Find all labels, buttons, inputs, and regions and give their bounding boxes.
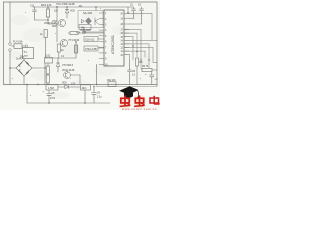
wire left to IC xyxy=(84,31,104,33)
wire box1 to IC xyxy=(98,38,104,40)
wire bridge right out xyxy=(32,67,45,69)
svg-text:VCC: VCC xyxy=(56,2,62,6)
junction xyxy=(47,6,48,7)
wire B1 to VCC xyxy=(95,7,97,11)
wire pin16 ext xyxy=(124,32,137,34)
svg-text:VT3 9013: VT3 9013 xyxy=(62,64,73,67)
wire to R3 xyxy=(68,32,70,34)
IR receiver module B1 box xyxy=(78,11,103,28)
IC right pin 18 stub xyxy=(124,23,129,25)
IC right pin 15 stub xyxy=(124,36,129,38)
junction xyxy=(140,59,141,60)
capacitor C9 electrolytic xyxy=(150,72,155,81)
wire vert x149 xyxy=(148,44,150,68)
wire R9 right xyxy=(152,69,157,71)
IC right pin 12 stub xyxy=(124,47,129,49)
svg-text:R10 47k: R10 47k xyxy=(41,3,52,7)
VCC rail wire xyxy=(33,6,133,8)
wire VCC to pin20 xyxy=(127,7,129,13)
watermark char dian partial (vector) xyxy=(150,96,159,104)
IC right pin 13 stub xyxy=(124,43,129,45)
terminal XP neutral xyxy=(9,49,12,52)
junction xyxy=(132,45,133,46)
junction xyxy=(66,6,67,7)
mark X1 xyxy=(82,30,85,33)
box filter 4M xyxy=(79,25,91,30)
IC left pin 2 stub xyxy=(99,18,104,20)
capacitor C7 box xyxy=(108,82,116,87)
resistor R1 vertical xyxy=(44,30,47,38)
resistor R6 xyxy=(46,66,49,74)
svg-text:1.5M: 1.5M xyxy=(48,86,54,90)
junction xyxy=(75,41,76,42)
wire JR down xyxy=(84,90,86,103)
resistor R9 xyxy=(142,68,152,71)
IC left pin 8 stub xyxy=(99,52,104,54)
watermark yellow glow xyxy=(120,96,144,107)
junction below IC xyxy=(96,84,97,85)
wire pin11 ext xyxy=(124,50,145,52)
second bottom wire xyxy=(96,86,157,88)
IC left pin 3 stub xyxy=(99,23,104,25)
svg-text:4T02-4.8B: 4T02-4.8B xyxy=(85,48,97,51)
wire VD9 bottom xyxy=(57,66,59,72)
svg-text:VD5: VD5 xyxy=(70,10,75,13)
wire T1 to bridge top xyxy=(23,59,25,61)
IC right pin 20 stub xyxy=(124,13,129,15)
wire C2 down xyxy=(133,14,135,19)
junction xyxy=(37,84,38,85)
wire vert x141b xyxy=(140,40,142,68)
capacitor C8 xyxy=(128,66,132,76)
diode VD5 xyxy=(65,10,69,13)
junction xyxy=(136,51,137,52)
wire AC live down xyxy=(9,2,11,43)
box JR xyxy=(81,85,91,90)
wire R9 left xyxy=(141,68,142,70)
junction xyxy=(148,59,149,60)
wire drop to ground rail xyxy=(26,85,28,104)
wire R10 top xyxy=(47,7,49,9)
wire C6 to rail xyxy=(93,98,95,103)
IC left pin 4 stub xyxy=(99,29,104,31)
diode VD9 xyxy=(56,63,60,66)
fuse FU1 0.5A xyxy=(14,44,22,49)
wire pin15 ext xyxy=(124,36,133,38)
box S10-102 xyxy=(84,37,98,42)
border top xyxy=(4,1,158,3)
svg-text:VT1 9013: VT1 9013 xyxy=(68,38,80,42)
transistor VT4 xyxy=(64,72,71,79)
wire vert x153 xyxy=(152,48,154,63)
wire R1 down to K1 xyxy=(45,38,47,58)
phototransistor inside B1 xyxy=(95,18,99,25)
wire K1 to R6 xyxy=(47,63,49,66)
wire R7 to bus xyxy=(47,83,49,85)
junction VCC-mid xyxy=(56,6,57,7)
wire R8 down xyxy=(136,66,138,85)
IC left pin 9 stub xyxy=(99,58,104,60)
capacitor C3 xyxy=(140,7,144,14)
junction R10 xyxy=(47,19,48,20)
wire pin ext short xyxy=(124,54,130,56)
watermark char chong 2 (vector) xyxy=(134,95,145,106)
svg-text:AT89C2051: AT89C2051 xyxy=(111,35,115,54)
svg-text:VT2: VT2 xyxy=(52,20,57,23)
wire R10 bottom xyxy=(47,17,49,24)
wire K1 down xyxy=(44,63,46,85)
wire pin17 ext xyxy=(124,29,141,31)
capacitor C6 electrolytic xyxy=(92,89,97,98)
wire below IC xyxy=(96,64,98,84)
wire vert x133 xyxy=(132,37,134,60)
junction xyxy=(95,6,96,7)
junction xyxy=(56,6,57,7)
paper background xyxy=(0,0,160,110)
wire R10 to VT1 area xyxy=(48,23,57,25)
svg-text:www.cndzz.com.cn: www.cndzz.com.cn xyxy=(122,107,157,110)
wire VD5 bottom xyxy=(66,13,68,18)
resistor R8 xyxy=(135,58,138,66)
relay K1 box xyxy=(45,58,53,64)
wire VT4 to right xyxy=(70,74,80,76)
IC right pin 10 stub xyxy=(124,54,129,56)
watermark char chong 1 (vector) xyxy=(120,95,131,106)
svg-text:470u: 470u xyxy=(50,98,56,100)
svg-text:SA-102: SA-102 xyxy=(83,11,92,15)
IC right pin 17 stub xyxy=(124,29,129,31)
junction JR rail xyxy=(84,102,85,103)
watermark graduation cap xyxy=(119,86,140,98)
wire vert x145 xyxy=(144,51,146,57)
ground rail xyxy=(27,102,110,104)
wire box2 to IC xyxy=(98,47,104,49)
wire R11 to VD12 xyxy=(58,86,65,88)
zener VD12 xyxy=(65,85,69,89)
wire pin14 ext long xyxy=(124,39,157,41)
svg-text:R9 75: R9 75 xyxy=(142,66,149,68)
resistor R4 xyxy=(57,44,60,52)
IR LED pair inside B1 xyxy=(82,20,85,23)
wire C3 to pin18 xyxy=(129,23,142,25)
resistor R10 xyxy=(46,9,49,17)
wire R4 down xyxy=(58,52,60,58)
wire R5 down xyxy=(75,53,77,58)
wire B1 down xyxy=(83,28,85,33)
wire R6-R7 xyxy=(47,74,49,75)
terminal T1 input xyxy=(25,45,27,47)
wire C11 down xyxy=(34,15,36,21)
svg-text:VD6 4148: VD6 4148 xyxy=(62,2,75,6)
svg-text:2.2u: 2.2u xyxy=(97,97,102,99)
wire fuse to T1 xyxy=(22,45,25,47)
junction C5 rail xyxy=(48,102,49,103)
scan noise xyxy=(9,10,152,99)
LED diamond inside B1 xyxy=(86,18,92,24)
junction xyxy=(56,23,57,24)
transistor VT3 xyxy=(60,39,67,46)
junction at bus xyxy=(26,84,27,85)
border right / wire xyxy=(156,2,158,86)
junction xyxy=(44,67,45,68)
wire to fuse xyxy=(11,45,14,47)
svg-text:FU 0.5A: FU 0.5A xyxy=(13,40,23,44)
wire vert x137 xyxy=(136,33,138,57)
border left / wire xyxy=(3,2,5,85)
wire to right border xyxy=(153,62,157,64)
IC right pin 16 stub xyxy=(124,32,129,34)
wire stub xyxy=(45,67,46,69)
IC left pin 1 stub xyxy=(99,12,104,14)
svg-text:T1: T1 xyxy=(24,50,28,54)
resistor R3 xyxy=(70,32,78,35)
IC right pin 19 stub xyxy=(124,18,129,20)
capacitor C11 xyxy=(33,7,37,15)
wire bridge left xyxy=(10,67,16,69)
capacitor C2 xyxy=(132,7,136,14)
wire C8 bottom xyxy=(129,76,131,85)
wire C3 down xyxy=(141,14,143,24)
wire bridge bottom to bus xyxy=(23,76,25,85)
wire R3 to IC xyxy=(78,32,104,34)
wire C6 top xyxy=(93,87,95,90)
svg-text:50V: 50V xyxy=(20,56,25,59)
wire vert x129 xyxy=(129,55,131,60)
wire x80 down xyxy=(79,75,81,85)
IC left pin 7 stub xyxy=(99,46,104,48)
box 4T03 xyxy=(84,46,98,51)
IC right pin 11 stub xyxy=(124,50,129,52)
resistor R7 xyxy=(46,75,49,83)
junction pin20 xyxy=(127,12,128,13)
IC left pin 6 stub xyxy=(99,41,104,43)
junction xyxy=(9,67,10,68)
wire C5 to rail xyxy=(48,99,50,103)
junction neutral-bridge xyxy=(9,67,10,68)
svg-text:JR-1: JR-1 xyxy=(82,87,88,90)
resistor R11 1.5M box xyxy=(46,85,58,90)
svg-text:JL52: JL52 xyxy=(45,55,51,58)
wire C11 join xyxy=(35,19,49,21)
IC U1 AT89C2051 body xyxy=(104,10,124,66)
wire R5 top xyxy=(75,42,77,45)
wire VD5 top xyxy=(66,7,68,10)
transformer T1 box xyxy=(23,48,34,59)
wire pin13 ext xyxy=(124,43,149,45)
terminal XP live xyxy=(9,43,12,46)
IC left pin 10 stub xyxy=(99,63,104,65)
bottom bus wire xyxy=(4,84,158,86)
wire C8 top xyxy=(129,60,131,66)
svg-text:VD11 4148: VD11 4148 xyxy=(62,69,75,72)
svg-text:R12 2M: R12 2M xyxy=(107,79,115,82)
wire C2 to pin19 xyxy=(129,18,134,20)
svg-text:VD8: VD8 xyxy=(62,83,67,85)
wire mid row y58 xyxy=(45,57,76,59)
bridge rectifier VD1-VD4 xyxy=(16,60,32,76)
wire VD9 top xyxy=(57,58,59,63)
wire mid vertical xyxy=(56,7,58,42)
wire pin20 ext xyxy=(129,13,152,15)
wire pin12 ext xyxy=(124,47,153,49)
junction xyxy=(93,86,94,87)
wire vert x152 xyxy=(151,14,153,41)
capacitor C5 electrolytic xyxy=(47,90,52,99)
transistor VT1 xyxy=(58,19,65,26)
wire AC neutral down xyxy=(9,52,11,85)
svg-text:S10-102: S10-102 xyxy=(85,38,95,41)
wire C9 to bus xyxy=(151,81,153,85)
wire vert x141a xyxy=(140,30,142,41)
IC left pin 5 stub xyxy=(99,35,104,37)
svg-text:12V: 12V xyxy=(71,83,76,86)
resistor R5 xyxy=(75,45,78,53)
IC right pin 14 stub xyxy=(124,39,129,41)
wire VD12 right xyxy=(69,86,80,88)
